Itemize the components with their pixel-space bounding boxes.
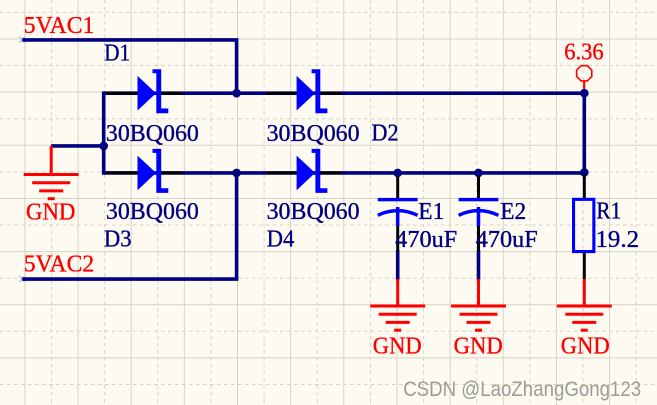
diode D1 [107, 69, 183, 113]
wire right bus [582, 93, 586, 172]
wire 5VAC2 [22, 173, 236, 281]
diode D4 [266, 149, 342, 193]
svg-text:19.2: 19.2 [596, 227, 640, 253]
svg-text:CSDN @LaoZhangGong123: CSDN @LaoZhangGong123 [403, 378, 641, 401]
ground E1 [370, 279, 425, 330]
svg-text:5VAC2: 5VAC2 [24, 252, 95, 278]
svg-text:E2: E2 [500, 199, 526, 225]
ground E2 [451, 279, 506, 330]
svg-text:30BQ060: 30BQ060 [267, 199, 360, 225]
svg-text:30BQ060: 30BQ060 [267, 121, 360, 147]
junction E2 [474, 169, 483, 178]
svg-text:D2: D2 [371, 120, 398, 146]
resistor R1 [574, 175, 594, 279]
svg-text:GND: GND [26, 199, 75, 225]
no-connect cross 5VAC2 end [19, 276, 25, 282]
wire row1 [104, 91, 585, 95]
svg-text:470uF: 470uF [395, 227, 457, 253]
junction R1 [580, 168, 589, 177]
svg-text:GND: GND [373, 333, 422, 359]
svg-text:D3: D3 [104, 226, 132, 252]
ground left [24, 146, 79, 199]
svg-text:GND: GND [561, 333, 610, 359]
svg-text:D4: D4 [267, 226, 295, 252]
diode D2 [266, 69, 342, 113]
capacitor E1 [378, 176, 418, 250]
svg-text:6.36: 6.36 [564, 40, 604, 66]
svg-text:470uF: 470uF [476, 227, 538, 253]
junction row2 mid [232, 169, 241, 178]
wire E1 to ground [396, 250, 400, 280]
junction row1 mid [232, 89, 241, 98]
svg-text:30BQ060: 30BQ060 [106, 199, 199, 225]
power port marker 6.36 node [577, 66, 592, 89]
svg-text:GND: GND [454, 333, 503, 359]
diode D3 [107, 149, 183, 193]
junction left bus GND [99, 142, 108, 151]
wire E2 to ground [477, 250, 481, 280]
wire left bus [102, 91, 106, 174]
no-connect cross 5VAC1 end [19, 37, 25, 43]
svg-text:E1: E1 [418, 199, 444, 225]
ground R1 [557, 279, 612, 330]
wire row2 [104, 171, 585, 175]
junction output node [580, 89, 589, 98]
wire 5VAC1 [22, 38, 236, 93]
svg-text:R1: R1 [596, 199, 621, 225]
junction E1 [393, 169, 402, 178]
wire GND tap [51, 144, 103, 148]
svg-text:5VAC1: 5VAC1 [24, 13, 95, 39]
svg-text:D1: D1 [104, 40, 130, 66]
svg-text:30BQ060: 30BQ060 [106, 121, 199, 147]
capacitor E2 [459, 176, 499, 250]
